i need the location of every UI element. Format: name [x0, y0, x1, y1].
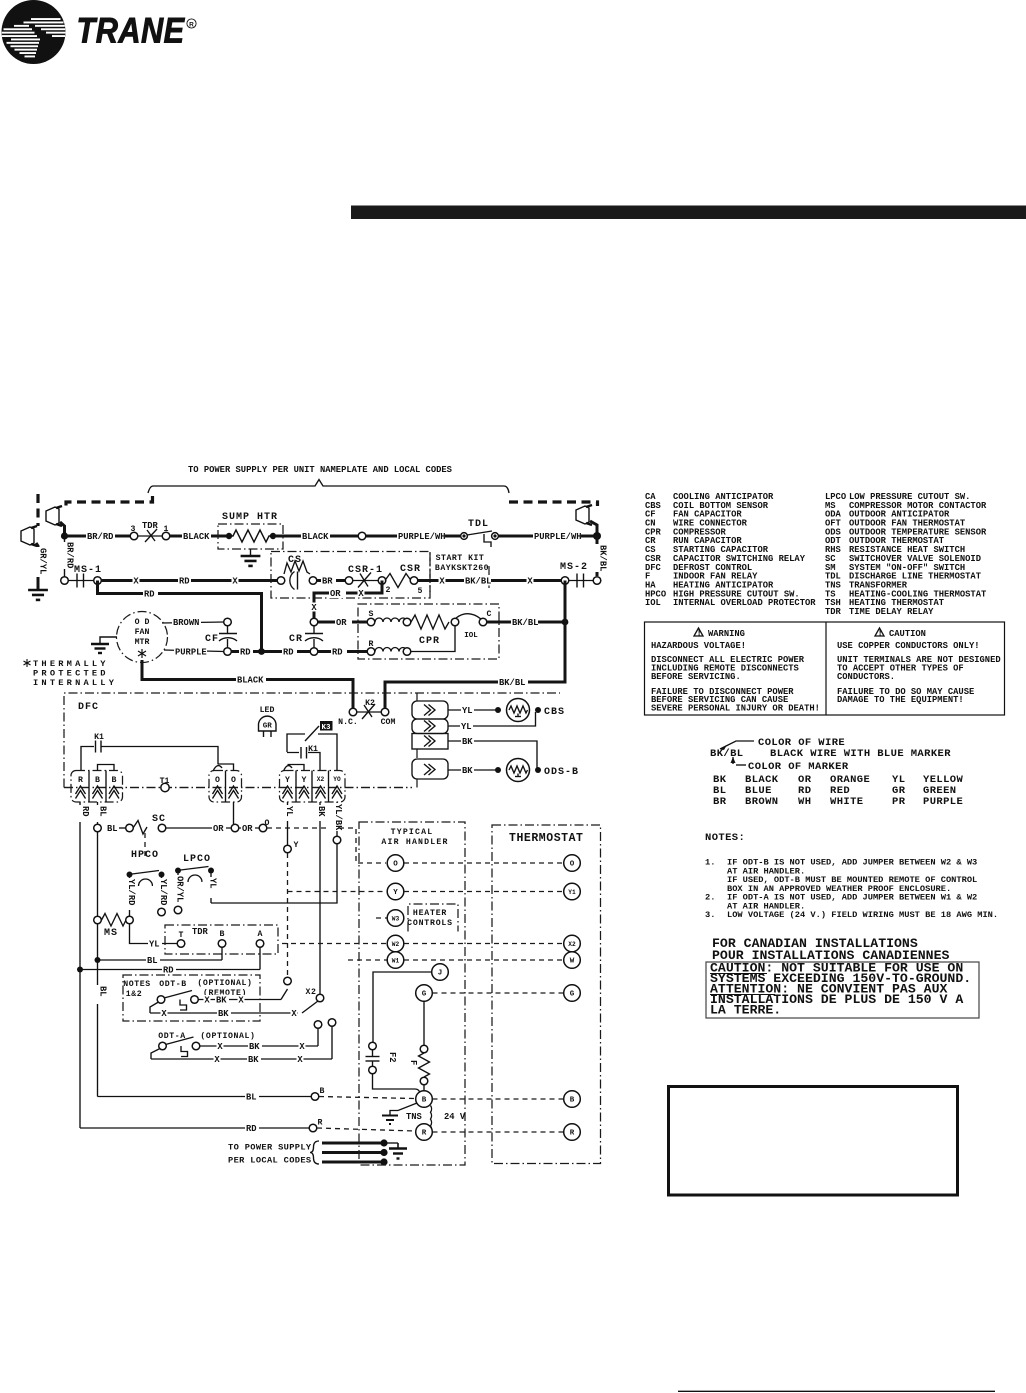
- thermostat terminal B: [564, 1091, 581, 1108]
- svg-text:BK: BK: [249, 1042, 260, 1052]
- svg-text:X: X: [217, 1042, 223, 1052]
- svg-text:(OPTIONAL): (OPTIONAL): [200, 1031, 255, 1041]
- svg-text:GR/YL: GR/YL: [38, 548, 48, 574]
- wire BLACK: [170, 535, 228, 538]
- junction node right feed: [593, 532, 601, 540]
- wire BK to ODS-B: [448, 741, 537, 768]
- dash-dot box start components: [271, 552, 430, 599]
- outdoor thermostat ODT-A (optional): [151, 1019, 336, 1065]
- svg-text:N.C.: N.C.: [338, 718, 358, 727]
- pressure switch LPCO: [170, 854, 218, 914]
- svg-text:X: X: [439, 577, 445, 587]
- svg-text:PURPLE/WH: PURPLE/WH: [534, 532, 582, 542]
- svg-text:BLACK WIRE WITH BLUE MARKER: BLACK WIRE WITH BLUE MARKER: [770, 748, 951, 760]
- registered mark: [187, 19, 196, 28]
- plug P2: [21, 527, 34, 545]
- svg-text:TDR: TDR: [825, 607, 842, 617]
- air handler terminal W1: [348, 959, 387, 961]
- relay coil CSR: [385, 564, 423, 596]
- svg-text:HEATER: HEATER: [413, 909, 447, 918]
- svg-text:X2: X2: [568, 941, 576, 948]
- svg-text:F2: F2: [387, 1052, 397, 1063]
- header black bar: [351, 206, 1026, 220]
- wire BK/BL down to MS-2: [596, 536, 599, 576]
- svg-text:MS: MS: [104, 928, 118, 939]
- wire R to thermostat: [433, 1131, 564, 1133]
- wire BL branch: [95, 957, 101, 963]
- svg-text:RD: RD: [80, 806, 90, 817]
- svg-text:YL/RD: YL/RD: [158, 879, 168, 905]
- sensor CBS: [507, 699, 566, 722]
- svg-text:B: B: [95, 776, 100, 785]
- wire Y to thermostat: [404, 891, 563, 893]
- svg-text:B: B: [422, 1097, 427, 1105]
- relay contact K1 (right): [287, 745, 320, 771]
- svg-text:START KIT: START KIT: [436, 554, 485, 563]
- motor ground: [100, 637, 117, 644]
- capacitor CF: [205, 618, 237, 655]
- thermostat terminal X2: [564, 935, 581, 952]
- thermostat terminal W: [564, 952, 581, 969]
- svg-text:TYPICAL: TYPICAL: [391, 828, 434, 837]
- LED indicator GR: [259, 706, 277, 737]
- svg-text:BLACK: BLACK: [302, 532, 329, 542]
- contactor MS-2 contacts: [560, 562, 601, 588]
- thermostat terminal Y1: [564, 883, 581, 900]
- svg-text:CSR-1: CSR-1: [348, 565, 383, 576]
- color of wire key: [710, 737, 964, 808]
- svg-text:RD: RD: [246, 1124, 257, 1134]
- svg-text:HAZARDOUS VOLTAGE!: HAZARDOUS VOLTAGE!: [651, 641, 746, 651]
- wire from O-O terminal to SC line: [233, 802, 235, 824]
- svg-text:HPCO: HPCO: [131, 850, 159, 861]
- pressure switch HPCO: [121, 850, 168, 916]
- defrost control DFC box: [64, 693, 560, 788]
- thermostat TDL discharge line switch: [461, 519, 499, 547]
- svg-text:BL: BL: [147, 956, 158, 966]
- svg-text:B: B: [112, 776, 117, 785]
- svg-text:O: O: [570, 861, 575, 869]
- contactor coil MS: [94, 914, 134, 940]
- fan relay terminal J: [373, 972, 431, 1042]
- warning caution box: [645, 622, 1005, 715]
- svg-text:X: X: [299, 1042, 305, 1052]
- notes: [705, 832, 998, 920]
- svg-text:OR: OR: [336, 618, 347, 628]
- sensor ODS-B: [507, 759, 580, 782]
- svg-text:BEFORE SERVICING.: BEFORE SERVICING.: [651, 672, 741, 682]
- capacitor CS: [277, 555, 317, 590]
- svg-text:BLACK: BLACK: [183, 532, 210, 542]
- start kit label BAYKSKT260: [429, 552, 431, 592]
- svg-text:IOL: IOL: [464, 632, 478, 640]
- svg-text:O: O: [215, 776, 220, 785]
- svg-text:RD: RD: [163, 966, 174, 976]
- terminal block Y Y X2 YO: [280, 765, 346, 803]
- svg-text:ODT-B: ODT-B: [159, 980, 187, 989]
- board edge dash-dot through terminals: [64, 787, 412, 789]
- svg-text:B: B: [320, 1087, 325, 1096]
- wire RD lower branch from MS-1: [98, 581, 262, 652]
- svg-text:BR: BR: [713, 796, 727, 808]
- wire W2 to thermostat X2: [404, 943, 563, 945]
- svg-text:3.: 3.: [705, 910, 715, 920]
- wire RD to compressor R: [318, 650, 367, 653]
- svg-text:PR: PR: [892, 796, 906, 808]
- svg-text:2.: 2.: [705, 893, 715, 903]
- contactor MS-1 contacts: [61, 565, 102, 588]
- svg-text:BK: BK: [316, 806, 326, 817]
- connector cells to sensors: [412, 693, 448, 788]
- svg-text:X: X: [297, 1055, 303, 1065]
- ground symbol left: [28, 589, 48, 592]
- svg-text:TDL: TDL: [468, 519, 489, 530]
- svg-text:X: X: [238, 996, 244, 1006]
- air handler terminal W3: [376, 917, 387, 919]
- outdoor thermostat ODT-B (optional remote): [123, 975, 298, 1021]
- svg-text:K3: K3: [321, 724, 331, 732]
- wire YL/BK from terminal YO: [336, 802, 338, 836]
- svg-text:X: X: [358, 589, 364, 599]
- wire RD compressor feed: [101, 579, 278, 582]
- wire TDR A to RD: [259, 948, 261, 970]
- TDR contact 3-1: [134, 535, 166, 537]
- svg-text:BK: BK: [216, 996, 227, 1006]
- svg-text:FAN: FAN: [135, 628, 150, 637]
- svg-text:3: 3: [131, 525, 136, 534]
- svg-text:W1: W1: [392, 958, 400, 965]
- svg-text:MTR: MTR: [135, 638, 150, 647]
- svg-text:O: O: [231, 776, 236, 785]
- wire PURPLE/WH 2: [498, 535, 597, 538]
- transformer TNS winding and ground: [382, 1103, 466, 1133]
- svg-text:O: O: [393, 861, 398, 869]
- svg-text:X2: X2: [317, 776, 325, 783]
- svg-text:Y1: Y1: [568, 889, 576, 896]
- compressor CPR with IOL: [358, 604, 499, 659]
- fan relay coil F: [408, 1002, 430, 1092]
- svg-text:BL: BL: [246, 1093, 257, 1103]
- wire YL to CBS: [448, 709, 496, 711]
- svg-text:CF: CF: [205, 634, 219, 645]
- wire BROWN: [162, 622, 224, 623]
- junction node RD: [258, 648, 265, 655]
- svg-text:THERMALLY: THERMALLY: [33, 659, 109, 669]
- svg-text:OR/YL: OR/YL: [175, 876, 185, 902]
- svg-text:PURPLE: PURPLE: [175, 648, 207, 658]
- junction node BR/RD feed: [61, 532, 68, 539]
- svg-text:INTERNALLY: INTERNALLY: [33, 678, 117, 688]
- svg-text:CR: CR: [289, 634, 303, 645]
- transformer TNS terminal B: [416, 1091, 433, 1108]
- svg-text:!: !: [878, 628, 883, 638]
- relay contact K2 N.C./COM: [338, 699, 395, 727]
- switchover solenoid SC line: [94, 814, 270, 858]
- wire connector CN: [358, 532, 366, 540]
- capacitor CR: [289, 618, 323, 655]
- svg-text:YL: YL: [461, 722, 472, 732]
- svg-text:BK/BL: BK/BL: [499, 678, 525, 688]
- svg-text:SUMP HTR: SUMP HTR: [222, 512, 278, 523]
- wire B to thermostat: [433, 1098, 564, 1100]
- svg-text:Y: Y: [285, 776, 290, 785]
- svg-text:IOL: IOL: [645, 598, 661, 608]
- svg-text:R: R: [318, 1119, 323, 1128]
- svg-text:G: G: [570, 991, 575, 999]
- plug P3: [576, 506, 589, 524]
- svg-text:BL: BL: [107, 824, 118, 834]
- svg-text:B: B: [570, 1097, 575, 1105]
- svg-text:PURPLE: PURPLE: [923, 796, 963, 808]
- svg-text:CPR: CPR: [419, 636, 440, 647]
- svg-text:DFC: DFC: [78, 702, 99, 713]
- svg-text:X: X: [204, 996, 210, 1006]
- svg-text:W3: W3: [392, 916, 400, 923]
- wire OR to compressor S: [318, 621, 367, 624]
- wire YL from terminal Y: [287, 802, 289, 845]
- svg-text:5: 5: [418, 587, 423, 596]
- terminal G: [416, 985, 433, 1002]
- svg-text:RD: RD: [179, 577, 190, 587]
- svg-text:G: G: [422, 991, 427, 999]
- svg-text:DAMAGE TO THE EQUIPMENT!: DAMAGE TO THE EQUIPMENT!: [837, 695, 964, 705]
- wire W1 to thermostat W: [404, 959, 563, 961]
- svg-text:BL: BL: [98, 806, 108, 817]
- svg-text:CSR: CSR: [400, 564, 421, 575]
- svg-text:R: R: [78, 776, 83, 785]
- wire BK/BL to MS-2: [418, 579, 562, 582]
- wire B dashed: [319, 1097, 415, 1099]
- thermostat terminal O: [564, 855, 581, 872]
- svg-text:RD: RD: [283, 648, 294, 658]
- svg-text:BK: BK: [248, 1055, 259, 1065]
- svg-text:TO POWER SUPPLY PER UNIT NAMEP: TO POWER SUPPLY PER UNIT NAMEPLATE AND L…: [188, 465, 452, 475]
- svg-text:2: 2: [386, 586, 391, 595]
- svg-text:PER LOCAL CODES: PER LOCAL CODES: [228, 1156, 311, 1166]
- svg-text:CONTROLS: CONTROLS: [407, 919, 453, 928]
- svg-text:R: R: [570, 1130, 575, 1138]
- svg-text:BR/RD: BR/RD: [65, 542, 75, 568]
- note: thermally protected internally: [24, 659, 118, 688]
- wire RD rail from terminal R: [79, 802, 81, 1128]
- Trane logo circle emblem: [2, 0, 66, 64]
- svg-text:TDR: TDR: [192, 927, 209, 937]
- svg-text:X: X: [133, 577, 139, 587]
- wire BR: [317, 579, 345, 582]
- air handler terminal Y: [387, 883, 404, 900]
- svg-text:OR: OR: [213, 824, 224, 834]
- note: to power supply per local codes: [228, 1141, 319, 1166]
- svg-text:T: T: [179, 931, 184, 940]
- wire BL rail from terminal B: [97, 802, 99, 1097]
- svg-text:X2: X2: [305, 988, 316, 997]
- svg-text:BLACK: BLACK: [237, 676, 264, 686]
- svg-text:PURPLE/WH: PURPLE/WH: [398, 532, 446, 542]
- svg-text:WARNING: WARNING: [708, 629, 745, 639]
- wire label GR/YL: [32, 547, 43, 577]
- svg-text:SEVERE PERSONAL INJURY OR DEAT: SEVERE PERSONAL INJURY OR DEATH!: [651, 704, 820, 714]
- svg-text:RD: RD: [332, 648, 343, 658]
- svg-text:BK: BK: [462, 737, 473, 747]
- svg-text:X: X: [214, 1055, 220, 1065]
- svg-text:R: R: [422, 1130, 427, 1138]
- svg-text:24 V: 24 V: [444, 1112, 466, 1122]
- wire RD to junction: [231, 650, 310, 653]
- svg-text:X: X: [291, 1009, 297, 1019]
- svg-text:YL/BK: YL/BK: [333, 804, 343, 831]
- wire R dashed: [317, 1128, 415, 1131]
- terminal block O O: [209, 764, 242, 802]
- svg-text:MS-2: MS-2: [560, 562, 588, 573]
- svg-text:THERMOSTAT: THERMOSTAT: [509, 832, 584, 845]
- heater controls label: [407, 904, 458, 932]
- svg-text:WHITE: WHITE: [830, 796, 864, 808]
- svg-text:BAYKSKT260: BAYKSKT260: [435, 564, 489, 573]
- wire RD branch: [77, 967, 83, 973]
- motor ODF O D FAN MTR: [117, 612, 168, 663]
- air handler terminal O: [387, 855, 404, 872]
- thermostat box THERMOSTAT: [492, 825, 601, 1164]
- ground lead dashed GR/YL: [36, 494, 39, 526]
- svg-text:BL: BL: [98, 986, 108, 997]
- empty data box: [669, 1087, 958, 1196]
- transformer TNS terminal R: [416, 1124, 433, 1141]
- wire PURPLE/WH: [366, 535, 460, 538]
- svg-text:RD: RD: [240, 648, 251, 658]
- svg-text:X: X: [161, 1009, 167, 1019]
- air handler box TYPICAL AIR HANDLER: [359, 822, 465, 1165]
- sump heater SUMP HTR: [218, 512, 283, 549]
- svg-text:GR: GR: [263, 723, 273, 731]
- svg-text:BK/BL: BK/BL: [465, 577, 491, 587]
- svg-text:WH: WH: [798, 796, 811, 808]
- wire PURPLE: [164, 650, 224, 652]
- relay contact K3: [287, 721, 337, 771]
- svg-text:COLOR OF MARKER: COLOR OF MARKER: [748, 761, 849, 773]
- svg-text:OR: OR: [330, 589, 341, 599]
- svg-text:YL/RD: YL/RD: [126, 879, 136, 905]
- svg-text:YL: YL: [462, 706, 473, 716]
- wire BLACK from fan motor: [142, 660, 353, 708]
- svg-text:O D: O D: [135, 618, 150, 627]
- svg-text:INTERNAL OVERLOAD PROTECTOR: INTERNAL OVERLOAD PROTECTOR: [673, 598, 816, 608]
- wire TDR B to BL: [221, 948, 223, 961]
- node X2 splice: [281, 977, 324, 1013]
- svg-text:BROWN: BROWN: [745, 796, 779, 808]
- time delay relay TDR terminals T B A: [165, 925, 278, 954]
- svg-text:1.: 1.: [705, 858, 715, 868]
- wire BK from terminal X2: [319, 802, 321, 994]
- wire O dashed to air handler: [267, 828, 386, 863]
- legend of abbreviations: [645, 492, 987, 617]
- junction node BK/BL: [562, 619, 569, 626]
- wire O to thermostat: [404, 862, 563, 864]
- svg-text:X: X: [527, 577, 533, 587]
- field wiring dashed: right power lead: [509, 502, 598, 506]
- svg-text:Y: Y: [393, 889, 398, 897]
- wire BR/RD down to MS-1: [64, 536, 66, 577]
- field wiring dashed: left power lead: [66, 496, 153, 507]
- thermostat terminal R: [564, 1124, 581, 1141]
- svg-text:BR/RD: BR/RD: [87, 532, 113, 542]
- svg-text:AIR HANDLER: AIR HANDLER: [381, 838, 448, 847]
- svg-text:BK/BL: BK/BL: [512, 618, 538, 628]
- svg-text:NOTES:: NOTES:: [705, 832, 745, 844]
- svg-text:CBS: CBS: [544, 707, 565, 718]
- sump heater ground: [250, 549, 252, 556]
- svg-text:YO: YO: [333, 776, 341, 783]
- svg-text:BK/BL: BK/BL: [710, 748, 744, 760]
- terminal block R B B: [71, 765, 123, 803]
- svg-text:BK/BL: BK/BL: [598, 545, 608, 571]
- svg-text:TIME DELAY RELAY: TIME DELAY RELAY: [849, 607, 934, 617]
- svg-text:A: A: [258, 930, 263, 939]
- thermostat terminal G: [564, 985, 581, 1002]
- svg-text:BK: BK: [218, 1009, 229, 1019]
- svg-text:CONDUCTORS.: CONDUCTORS.: [837, 672, 895, 682]
- svg-text:BK: BK: [462, 766, 473, 776]
- svg-text:1: 1: [164, 525, 169, 534]
- fuse F2: [366, 1042, 421, 1093]
- wire BK 2: [448, 769, 496, 771]
- svg-text:TO POWER SUPPLY: TO POWER SUPPLY: [228, 1143, 312, 1153]
- svg-text:TRANE: TRANE: [77, 12, 186, 51]
- power supply stub wires: [322, 1139, 407, 1165]
- svg-text:C: C: [487, 610, 492, 619]
- wire OR branch from CSR: [314, 581, 382, 620]
- svg-text:1&2: 1&2: [126, 990, 143, 999]
- svg-text:W: W: [570, 958, 575, 966]
- wire Y dashed to air handler and ODT-B: [288, 853, 387, 977]
- plug P1: [46, 507, 59, 525]
- svg-text:J: J: [438, 970, 443, 978]
- svg-text:SC: SC: [152, 814, 166, 825]
- svg-text:YL: YL: [149, 940, 160, 950]
- svg-text:YL: YL: [208, 878, 218, 889]
- svg-text:CAUTION: CAUTION: [889, 629, 926, 639]
- svg-text:!: !: [697, 628, 702, 638]
- svg-text:R: R: [189, 21, 194, 28]
- relay contact K1 (left): [81, 733, 218, 770]
- wire YL from MS to TDR: [130, 924, 178, 944]
- svg-text:X: X: [232, 577, 238, 587]
- wire BLACK 2: [276, 535, 358, 538]
- svg-text:LED: LED: [260, 706, 275, 715]
- svg-text:OR: OR: [242, 824, 253, 834]
- svg-text:RD: RD: [144, 590, 155, 600]
- canadian installations notice: [706, 936, 979, 1018]
- relay contact CSR-1: [345, 565, 390, 595]
- svg-text:Y: Y: [302, 776, 307, 785]
- wire YL return from CBS: [448, 712, 536, 726]
- svg-text:NOTES: NOTES: [123, 980, 151, 989]
- wire G to thermostat: [433, 992, 564, 994]
- wire RD to R: [80, 1127, 309, 1129]
- wire BK/BL main drop: [385, 581, 565, 709]
- svg-text:W2: W2: [392, 941, 400, 948]
- svg-text:ODS-B: ODS-B: [544, 767, 579, 778]
- svg-text:BROWN: BROWN: [173, 618, 199, 628]
- svg-text:(OPTIONAL): (OPTIONAL): [197, 978, 252, 988]
- air handler terminal W2: [282, 943, 387, 945]
- bottom page rule: [678, 1390, 995, 1392]
- svg-text:PROTECTED: PROTECTED: [33, 669, 109, 679]
- svg-text:O: O: [265, 819, 270, 828]
- svg-text:X: X: [311, 603, 317, 613]
- brace under power supply note: [148, 480, 509, 494]
- svg-text:LPCO: LPCO: [183, 854, 211, 865]
- svg-text:YL: YL: [284, 806, 294, 817]
